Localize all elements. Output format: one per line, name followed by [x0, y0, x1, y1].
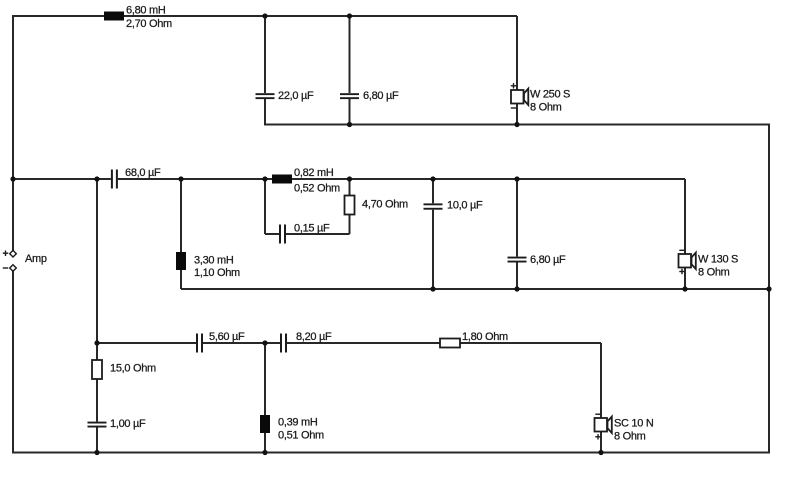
svg-text:1,10 Ohm: 1,10 Ohm: [194, 267, 240, 279]
svg-text:22,0 µF: 22,0 µF: [278, 90, 314, 102]
svg-text:4,70 Ohm: 4,70 Ohm: [362, 199, 408, 211]
svg-text:8 Ohm: 8 Ohm: [698, 267, 730, 279]
svg-text:5,60 µF: 5,60 µF: [209, 331, 245, 343]
svg-text:8 Ohm: 8 Ohm: [530, 102, 562, 114]
svg-text:0,82 mH: 0,82 mH: [294, 167, 334, 179]
svg-text:1,00 µF: 1,00 µF: [110, 418, 146, 430]
svg-text:6,80 mH: 6,80 mH: [126, 5, 166, 17]
svg-text:8 Ohm: 8 Ohm: [614, 431, 646, 443]
svg-text:0,51 Ohm: 0,51 Ohm: [278, 430, 324, 442]
svg-text:0,39 mH: 0,39 mH: [278, 417, 318, 429]
svg-text:10,0 µF: 10,0 µF: [447, 200, 483, 212]
svg-text:15,0 Ohm: 15,0 Ohm: [110, 363, 156, 375]
svg-text:6,80 µF: 6,80 µF: [363, 90, 399, 102]
svg-text:W 250 S: W 250 S: [530, 89, 570, 101]
svg-text:W 130 S: W 130 S: [698, 254, 738, 266]
svg-text:Amp: Amp: [25, 253, 47, 265]
svg-text:0,15 µF: 0,15 µF: [294, 223, 330, 235]
svg-text:68,0 µF: 68,0 µF: [125, 167, 161, 179]
svg-text:0,52 Ohm: 0,52 Ohm: [294, 183, 340, 195]
svg-text:2,70 Ohm: 2,70 Ohm: [126, 18, 172, 30]
svg-text:6,80 µF: 6,80 µF: [530, 254, 566, 266]
svg-text:1,80 Ohm: 1,80 Ohm: [462, 331, 508, 343]
svg-text:8,20 µF: 8,20 µF: [296, 331, 332, 343]
svg-text:3,30 mH: 3,30 mH: [194, 255, 234, 267]
svg-text:SC 10 N: SC 10 N: [614, 418, 654, 430]
